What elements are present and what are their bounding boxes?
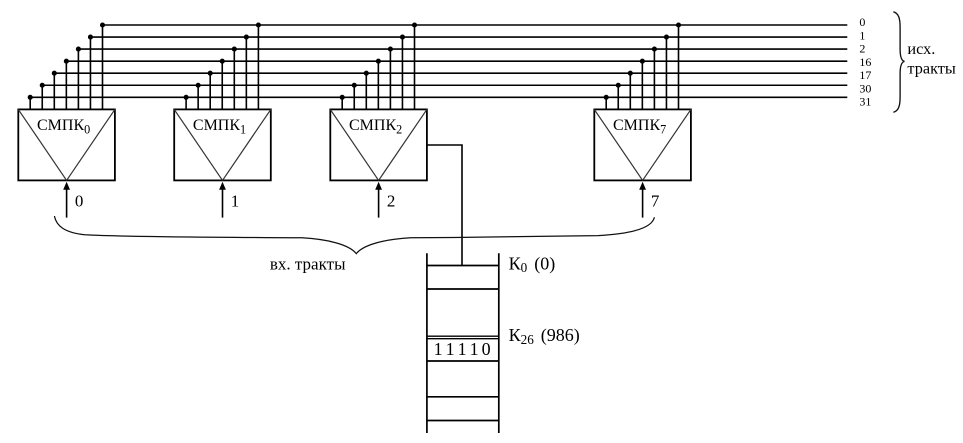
svg-text:1: 1 [859,28,865,42]
svg-text:К26 (986): К26 (986) [509,325,580,347]
svg-text:1 1 1 1 0: 1 1 1 1 0 [434,339,491,359]
svg-text:К0 (0): К0 (0) [509,254,556,276]
svg-text:30: 30 [859,81,871,95]
svg-text:16: 16 [859,55,871,69]
svg-text:исх.: исх. [907,39,935,58]
svg-text:0: 0 [75,192,84,211]
svg-text:СМПК1: СМПК1 [193,117,246,136]
svg-text:СМПК2: СМПК2 [349,117,402,136]
svg-text:2: 2 [387,192,396,211]
svg-text:СМПК0: СМПК0 [37,117,90,136]
svg-text:СМПК7: СМПК7 [613,117,666,136]
svg-text:31: 31 [859,95,871,109]
svg-text:0: 0 [859,15,865,29]
svg-text:1: 1 [231,192,240,211]
svg-text:тракты: тракты [907,58,955,77]
svg-text:7: 7 [651,192,660,211]
svg-text:2: 2 [859,42,865,56]
svg-text:17: 17 [859,68,871,82]
svg-text:вх. тракты: вх. тракты [270,254,346,273]
